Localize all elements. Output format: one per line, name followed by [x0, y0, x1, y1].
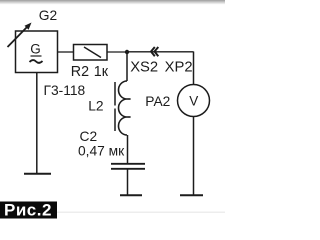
ground (C2) — [120, 194, 142, 196]
svg-text:G: G — [30, 41, 41, 56]
voltmeter PA2 — [178, 85, 210, 117]
wire G2 to R2 — [58, 51, 74, 53]
svg-text:C2: C2 — [80, 129, 98, 144]
svg-text:0,47 мк: 0,47 мк — [78, 144, 125, 159]
svg-text:Рис.2: Рис.2 — [4, 201, 52, 220]
wire junction to XS2 — [127, 51, 194, 53]
svg-text:Г3-118: Г3-118 — [44, 83, 86, 98]
generator G2 — [16, 31, 58, 73]
inductor L2 — [119, 81, 131, 135]
core line of L2 — [114, 82, 116, 131]
svg-text:XS2: XS2 — [130, 60, 158, 76]
ground (G2) — [24, 173, 51, 175]
ground (PA2) — [180, 194, 203, 196]
adjustment arrow on G2 — [8, 23, 32, 48]
svg-text:G2: G2 — [39, 8, 57, 23]
wire C2 to ground — [127, 169, 129, 195]
caption Рис.2 — [0, 201, 57, 220]
svg-text:L2: L2 — [88, 99, 103, 114]
wire junction down to L2 — [126, 52, 128, 81]
wire corner down to PA2 — [193, 52, 195, 85]
wire L2 to C2 — [127, 135, 129, 163]
svg-text:V: V — [189, 94, 198, 109]
junction node — [125, 50, 129, 54]
connector XS2 socket chevron — [151, 47, 155, 56]
capacitor C2 — [111, 164, 145, 169]
resistor R2 — [74, 45, 108, 61]
wire PA2 to ground — [193, 117, 195, 196]
connector XP2 pin chevron — [155, 47, 159, 56]
wire G2 bottom to ground — [36, 73, 38, 174]
svg-text:XP2: XP2 — [165, 60, 193, 76]
svg-text:PA2: PA2 — [145, 94, 170, 109]
wire R2 to junction — [107, 51, 127, 53]
